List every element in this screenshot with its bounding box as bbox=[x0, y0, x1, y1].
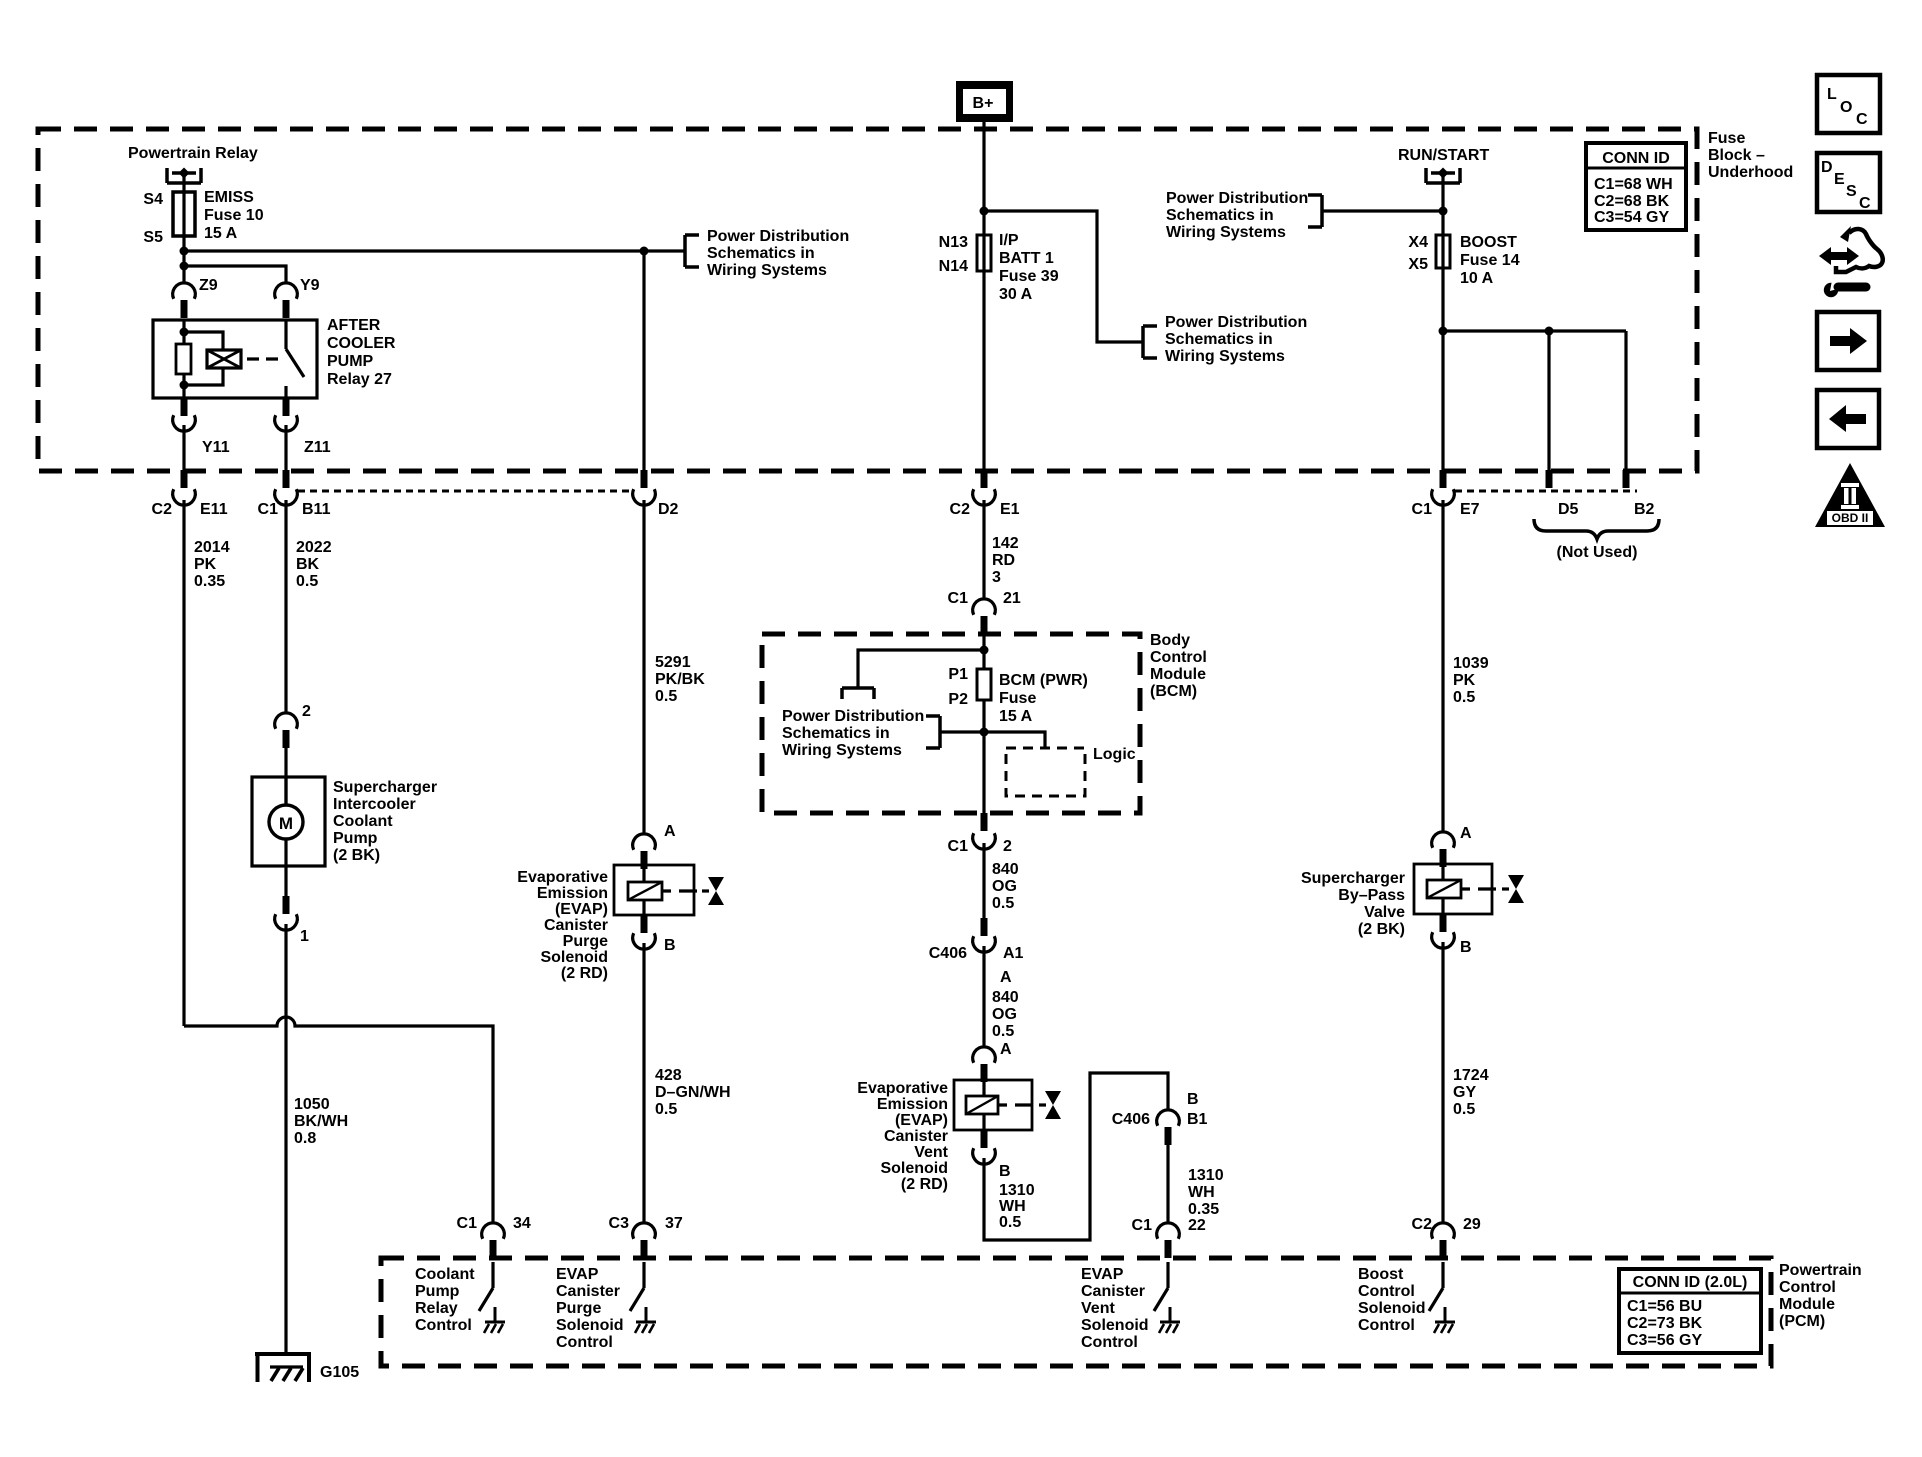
svg-text:Control: Control bbox=[556, 1334, 613, 1351]
svg-text:1724: 1724 bbox=[1453, 1067, 1489, 1084]
wire Z11 to B11 bbox=[284, 425, 287, 470]
switch EVAP canister purge solenoid control bbox=[630, 1262, 656, 1333]
connector pin 1 pump bbox=[284, 866, 287, 896]
svg-text:OBD II: OBD II bbox=[1832, 511, 1869, 525]
svg-text:Powertrain Relay: Powertrain Relay bbox=[128, 145, 258, 162]
dotted connector line B11 to D2 bbox=[298, 490, 633, 493]
svg-text:N14: N14 bbox=[939, 258, 968, 275]
wire 1310 WH to C1 22 bbox=[1166, 1145, 1169, 1223]
svg-text:2: 2 bbox=[302, 703, 311, 720]
svg-text:Canister: Canister bbox=[556, 1283, 620, 1300]
svg-text:Schematics in: Schematics in bbox=[707, 245, 815, 262]
relay linkage dashes bbox=[247, 357, 278, 360]
node D5 B2 branch junction bbox=[1439, 327, 1448, 336]
relay coil X-box bbox=[180, 328, 189, 337]
svg-text:0.8: 0.8 bbox=[294, 1130, 316, 1147]
svg-text:Fuse 39: Fuse 39 bbox=[999, 268, 1059, 285]
wire D2 down to purge solenoid bbox=[642, 251, 645, 834]
svg-text:C3: C3 bbox=[609, 1215, 630, 1232]
wire branch to power distribution right bbox=[984, 211, 1143, 342]
svg-text:D–GN/WH: D–GN/WH bbox=[655, 1084, 731, 1101]
svg-text:428: 428 bbox=[655, 1067, 682, 1084]
svg-text:(2 BK): (2 BK) bbox=[333, 847, 380, 864]
RUN/START feed symbol bbox=[1426, 168, 1460, 184]
wire feed to fuse 14 bbox=[1441, 173, 1444, 235]
svg-text:5291: 5291 bbox=[655, 654, 691, 671]
wire 840 OG to C406 bbox=[982, 843, 985, 918]
svg-text:O: O bbox=[1840, 99, 1852, 116]
connector B2 pin bbox=[1623, 470, 1630, 488]
svg-text:Solenoid: Solenoid bbox=[1081, 1317, 1149, 1334]
svg-text:Power Distribution: Power Distribution bbox=[707, 228, 849, 245]
connector B bypass valve bbox=[1440, 914, 1447, 932]
svg-text:Boost: Boost bbox=[1358, 1266, 1404, 1283]
svg-text:PUMP: PUMP bbox=[327, 353, 374, 370]
fuse 10 EMISS S4-S5 bbox=[182, 192, 185, 236]
svg-text:Pump: Pump bbox=[333, 830, 378, 847]
svg-text:Control: Control bbox=[415, 1317, 472, 1334]
svg-text:B: B bbox=[999, 1163, 1011, 1180]
wire 428 to C3 37 bbox=[642, 943, 645, 1223]
svg-text:1310: 1310 bbox=[999, 1182, 1035, 1199]
svg-text:Control: Control bbox=[1358, 1283, 1415, 1300]
svg-text:2: 2 bbox=[1003, 838, 1012, 855]
svg-text:BK: BK bbox=[296, 556, 320, 573]
OBD II icon bbox=[1815, 463, 1885, 527]
powertrain relay feed symbol bbox=[167, 168, 201, 184]
wire B+ down to fuse 39 bbox=[982, 122, 985, 235]
svg-text:BCM (PWR): BCM (PWR) bbox=[999, 672, 1088, 689]
svg-text:34: 34 bbox=[513, 1215, 531, 1232]
svg-text:Module: Module bbox=[1150, 666, 1206, 683]
svg-text:(2 BK): (2 BK) bbox=[1358, 921, 1405, 938]
svg-text:(2 RD): (2 RD) bbox=[561, 965, 608, 982]
svg-text:3: 3 bbox=[992, 569, 1001, 586]
wire 142 RD to BCM bbox=[982, 500, 985, 599]
svg-text:E11: E11 bbox=[200, 501, 228, 518]
node S5 junction bbox=[180, 247, 189, 256]
svg-text:C2=73 BK: C2=73 BK bbox=[1627, 1315, 1703, 1332]
svg-text:G105: G105 bbox=[320, 1364, 359, 1381]
DESC icon bbox=[1817, 153, 1880, 212]
svg-text:C1=56 BU: C1=56 BU bbox=[1627, 1298, 1702, 1315]
wire feed to fuse S4 bbox=[182, 173, 185, 192]
svg-text:(Not Used): (Not Used) bbox=[1557, 544, 1638, 561]
svg-text:0.5: 0.5 bbox=[1453, 1101, 1475, 1118]
svg-text:D5: D5 bbox=[1558, 501, 1579, 518]
wire Y11 to E11 bbox=[182, 425, 185, 470]
svg-text:By–Pass: By–Pass bbox=[1338, 887, 1405, 904]
svg-text:B+: B+ bbox=[973, 95, 994, 112]
svg-text:C1: C1 bbox=[1412, 501, 1433, 518]
relay switch bbox=[284, 320, 287, 349]
supercharger by-pass valve solenoid bbox=[1414, 862, 1524, 914]
svg-text:Module: Module bbox=[1779, 1296, 1835, 1313]
svg-text:B1: B1 bbox=[1187, 1111, 1208, 1128]
bracket power distribution (left) bbox=[685, 235, 699, 267]
fuse BCM (PWR) P1-P2 bbox=[977, 669, 991, 700]
svg-text:B: B bbox=[664, 937, 676, 954]
fuse 39 I/P BATT 1 N13-N14 bbox=[982, 235, 985, 271]
svg-text:(EVAP): (EVAP) bbox=[895, 1112, 948, 1129]
wire 840 OG to vent solenoid bbox=[982, 946, 985, 1048]
svg-text:A: A bbox=[664, 823, 676, 840]
connector C406 A1 bbox=[981, 918, 988, 936]
svg-text:Schematics in: Schematics in bbox=[782, 725, 890, 742]
label Power Distribution Schematics in Wiring Systems (fuse block) bbox=[707, 228, 849, 279]
svg-text:(PCM): (PCM) bbox=[1779, 1313, 1825, 1330]
wire S5 down bbox=[182, 236, 185, 283]
bracket power distribution (top right) bbox=[1308, 195, 1322, 227]
svg-text:C406: C406 bbox=[929, 945, 967, 962]
EVAP canister vent solenoid bbox=[954, 1078, 1061, 1130]
svg-text:RD: RD bbox=[992, 552, 1015, 569]
wire to power distribution bracket (top right) bbox=[1322, 209, 1443, 212]
svg-text:Schematics in: Schematics in bbox=[1165, 331, 1273, 348]
svg-text:Control: Control bbox=[1150, 649, 1207, 666]
wire P2 down through BCM bbox=[982, 700, 985, 813]
fuse 14 BOOST X4-X5 bbox=[1441, 235, 1444, 268]
svg-text:Fuse: Fuse bbox=[999, 690, 1036, 707]
svg-text:Evaporative: Evaporative bbox=[517, 869, 608, 886]
EVAP canister purge solenoid bbox=[614, 864, 724, 915]
PCM dashed box bbox=[381, 1258, 1771, 1366]
label Boost Control Solenoid Control bbox=[1358, 1266, 1426, 1334]
svg-text:A: A bbox=[1460, 825, 1472, 842]
relay 27 AFTER COOLER PUMP box bbox=[153, 320, 317, 398]
node Y9 branch junction bbox=[180, 262, 189, 271]
svg-text:A: A bbox=[1000, 1041, 1012, 1058]
connector B purge solenoid bbox=[641, 915, 648, 933]
svg-text:X4: X4 bbox=[1408, 234, 1428, 251]
BCM dashed box bbox=[762, 634, 1140, 813]
svg-text:C2: C2 bbox=[950, 501, 971, 518]
svg-text:37: 37 bbox=[665, 1215, 683, 1232]
wire 2014 PK E11 down bbox=[182, 500, 185, 1026]
svg-text:OG: OG bbox=[992, 1006, 1017, 1023]
svg-text:Z11: Z11 bbox=[304, 439, 331, 456]
svg-text:Evaporative: Evaporative bbox=[857, 1080, 948, 1097]
svg-text:1039: 1039 bbox=[1453, 655, 1489, 672]
wire branch to BCM power distribution bracket bbox=[858, 650, 984, 688]
relay coil resistor bbox=[182, 320, 185, 398]
svg-text:E1: E1 bbox=[1000, 501, 1020, 518]
node BCM feed junction bbox=[980, 646, 989, 655]
label 840 OG 0.5 bbox=[992, 861, 1019, 912]
svg-text:PK: PK bbox=[1453, 672, 1476, 689]
svg-text:RUN/START: RUN/START bbox=[1398, 147, 1489, 164]
wire into BCM bbox=[982, 634, 985, 669]
svg-text:0.35: 0.35 bbox=[194, 573, 225, 590]
label A 840 OG 0.5 A bbox=[992, 969, 1019, 1058]
svg-text:(BCM): (BCM) bbox=[1150, 683, 1197, 700]
svg-text:Control: Control bbox=[1081, 1334, 1138, 1351]
wire S5 junction to D2 branch bbox=[184, 249, 644, 252]
svg-text:Coolant: Coolant bbox=[333, 813, 393, 830]
svg-text:C1: C1 bbox=[457, 1215, 478, 1232]
connector C2 E11 bbox=[181, 470, 188, 488]
svg-text:A1: A1 bbox=[1003, 945, 1024, 962]
svg-text:0.5: 0.5 bbox=[992, 895, 1014, 912]
svg-text:Solenoid: Solenoid bbox=[556, 1317, 624, 1334]
node B+ branch junction bbox=[980, 207, 989, 216]
svg-text:Emission: Emission bbox=[877, 1096, 948, 1113]
svg-text:EVAP: EVAP bbox=[1081, 1266, 1124, 1283]
label Supercharger Intercooler Coolant Pump (2 BK) bbox=[333, 779, 437, 864]
svg-text:Supercharger: Supercharger bbox=[333, 779, 437, 796]
svg-text:(2 RD): (2 RD) bbox=[901, 1176, 948, 1193]
service/wrench icon bbox=[1819, 226, 1883, 297]
connector C2 E1 bbox=[981, 470, 988, 488]
svg-text:Y11: Y11 bbox=[202, 439, 230, 456]
svg-text:15 A: 15 A bbox=[999, 708, 1033, 725]
svg-text:29: 29 bbox=[1463, 1216, 1481, 1233]
node logic junction bbox=[980, 728, 989, 737]
dotted connector line E7 to B2 bbox=[1455, 490, 1637, 493]
svg-text:(EVAP): (EVAP) bbox=[555, 901, 608, 918]
svg-text:D: D bbox=[1821, 159, 1833, 176]
svg-text:1: 1 bbox=[300, 928, 309, 945]
svg-text:1310: 1310 bbox=[1188, 1167, 1224, 1184]
connector Z9 bbox=[173, 283, 196, 299]
svg-text:S5: S5 bbox=[143, 229, 163, 246]
svg-text:I/P: I/P bbox=[999, 232, 1019, 249]
svg-text:0.5: 0.5 bbox=[999, 1214, 1021, 1231]
svg-text:N13: N13 bbox=[939, 234, 968, 251]
wire fuse 39 to C2 E1 bbox=[982, 271, 985, 470]
wire to power distribution bracket (BCM left) bbox=[940, 730, 984, 733]
svg-text:0.5: 0.5 bbox=[655, 1101, 677, 1118]
svg-text:22: 22 bbox=[1188, 1217, 1206, 1234]
svg-text:P2: P2 bbox=[948, 691, 968, 708]
svg-text:Fuse 10: Fuse 10 bbox=[204, 207, 264, 224]
label Body Control Module (BCM) bbox=[1150, 632, 1207, 700]
connector C1 B11 bbox=[283, 470, 290, 488]
svg-text:Body: Body bbox=[1150, 632, 1190, 649]
svg-text:Vent: Vent bbox=[914, 1144, 948, 1161]
motor M supercharger intercooler coolant pump bbox=[252, 777, 325, 866]
svg-text:Relay 27: Relay 27 bbox=[327, 371, 392, 388]
svg-text:B: B bbox=[1187, 1091, 1199, 1108]
svg-text:Fuse: Fuse bbox=[1708, 130, 1745, 147]
svg-text:B11: B11 bbox=[302, 501, 331, 518]
svg-text:Wiring Systems: Wiring Systems bbox=[782, 742, 902, 759]
connector D2 bbox=[641, 470, 648, 488]
svg-text:Fuse 14: Fuse 14 bbox=[1460, 252, 1520, 269]
LOC icon bbox=[1817, 75, 1880, 133]
svg-text:21: 21 bbox=[1003, 590, 1021, 607]
svg-text:C: C bbox=[1859, 195, 1871, 212]
svg-text:142: 142 bbox=[992, 535, 1019, 552]
svg-text:Schematics in: Schematics in bbox=[1166, 207, 1274, 224]
svg-text:E: E bbox=[1834, 171, 1845, 188]
svg-text:Wiring Systems: Wiring Systems bbox=[1165, 348, 1285, 365]
svg-text:OG: OG bbox=[992, 878, 1017, 895]
node RUN/START junction bbox=[1439, 207, 1448, 216]
svg-text:C: C bbox=[1856, 111, 1868, 128]
label Coolant Pump Relay Control bbox=[415, 1266, 475, 1334]
svg-text:C1: C1 bbox=[258, 501, 279, 518]
svg-text:840: 840 bbox=[992, 861, 1019, 878]
svg-text:S: S bbox=[1846, 183, 1857, 200]
svg-text:AFTER: AFTER bbox=[327, 317, 381, 334]
svg-text:15 A: 15 A bbox=[204, 225, 238, 242]
svg-text:Power Distribution: Power Distribution bbox=[782, 708, 924, 725]
svg-text:Intercooler: Intercooler bbox=[333, 796, 416, 813]
svg-text:EMISS: EMISS bbox=[204, 189, 254, 206]
wire vent solenoid B loop to C406 B1 bbox=[984, 1073, 1168, 1240]
svg-text:0.5: 0.5 bbox=[296, 573, 318, 590]
B+ power symbol bbox=[956, 81, 1013, 122]
label 2014 PK 0.35 bbox=[194, 539, 230, 590]
svg-text:0.5: 0.5 bbox=[655, 688, 677, 705]
svg-text:L: L bbox=[1827, 86, 1837, 103]
wire X5 to C1 E7 bbox=[1441, 268, 1444, 470]
label 2022 BK 0.5 bbox=[296, 539, 332, 590]
svg-text:C1: C1 bbox=[948, 590, 969, 607]
bracket power distribution (mid right) bbox=[1143, 326, 1157, 358]
connector C1 E7 bbox=[1440, 470, 1447, 488]
label 1724 GY 0.5 bbox=[1453, 1067, 1489, 1118]
connector A vent solenoid bbox=[973, 1047, 996, 1063]
connector B vent solenoid bbox=[981, 1130, 988, 1148]
svg-text:Relay: Relay bbox=[415, 1300, 458, 1317]
connector D5 pin bbox=[1546, 470, 1553, 488]
svg-text:0.5: 0.5 bbox=[1453, 689, 1475, 706]
svg-text:Wiring Systems: Wiring Systems bbox=[1166, 224, 1286, 241]
CONN ID (2.0L) table (PCM) bbox=[1619, 1269, 1761, 1353]
svg-text:0.5: 0.5 bbox=[992, 1023, 1014, 1040]
svg-text:Y9: Y9 bbox=[300, 277, 320, 294]
label EVAP Canister Vent Solenoid Control bbox=[1081, 1266, 1149, 1351]
label Power Distribution Schematics in Wiring Systems (mid right) bbox=[1165, 314, 1307, 365]
label EVAP Canister Purge Solenoid Control bbox=[556, 1266, 624, 1351]
svg-text:10 A: 10 A bbox=[1460, 270, 1494, 287]
logic dashed box bbox=[1006, 748, 1085, 796]
left arrow icon bbox=[1817, 390, 1879, 448]
switch boost control solenoid control bbox=[1429, 1262, 1455, 1333]
svg-text:Purge: Purge bbox=[556, 1300, 601, 1317]
svg-text:Solenoid: Solenoid bbox=[540, 949, 608, 966]
svg-text:GY: GY bbox=[1453, 1084, 1476, 1101]
wire D5 bbox=[1547, 331, 1550, 470]
svg-text:30 A: 30 A bbox=[999, 286, 1033, 303]
svg-text:Canister: Canister bbox=[1081, 1283, 1145, 1300]
label 1310 WH 0.35 bbox=[1188, 1167, 1224, 1218]
svg-text:WH: WH bbox=[999, 1198, 1026, 1215]
svg-text:Powertrain: Powertrain bbox=[1779, 1262, 1862, 1279]
wire B2 bbox=[1624, 331, 1627, 470]
svg-text:S4: S4 bbox=[143, 191, 163, 208]
svg-text:Power Distribution: Power Distribution bbox=[1166, 190, 1308, 207]
label Fuse Block - Underhood bbox=[1708, 130, 1793, 181]
label 5291 PK/BK 0.5 bbox=[655, 654, 705, 705]
label 142 RD 3 bbox=[992, 535, 1019, 586]
svg-text:D2: D2 bbox=[658, 501, 679, 518]
svg-text:840: 840 bbox=[992, 989, 1019, 1006]
svg-text:Solenoid: Solenoid bbox=[880, 1160, 948, 1177]
svg-text:Supercharger: Supercharger bbox=[1301, 870, 1405, 887]
fuse block underhood dashed box bbox=[38, 129, 1697, 471]
svg-text:1050: 1050 bbox=[294, 1096, 330, 1113]
ground G105 bbox=[255, 1354, 311, 1382]
svg-text:Pump: Pump bbox=[415, 1283, 460, 1300]
connector C1 2 BCM bottom bbox=[981, 813, 988, 831]
svg-text:Canister: Canister bbox=[544, 917, 608, 934]
wire branch to Y9 bbox=[184, 266, 286, 283]
right arrow icon bbox=[1817, 312, 1879, 370]
svg-text:PK/BK: PK/BK bbox=[655, 671, 705, 688]
svg-text:Control: Control bbox=[1358, 1317, 1415, 1334]
svg-text:Purge: Purge bbox=[563, 933, 608, 950]
svg-text:C3=54 GY: C3=54 GY bbox=[1594, 209, 1669, 226]
bracket power distribution (BCM left) bbox=[926, 716, 940, 748]
svg-text:C1: C1 bbox=[948, 838, 969, 855]
svg-text:Coolant: Coolant bbox=[415, 1266, 475, 1283]
svg-text:PK: PK bbox=[194, 556, 217, 573]
connector Y9 bbox=[275, 283, 298, 299]
CONN ID table (fuse block) bbox=[1586, 143, 1686, 230]
svg-text:B: B bbox=[1460, 939, 1472, 956]
label 1310 WH 0.5 bbox=[999, 1182, 1035, 1231]
svg-text:E7: E7 bbox=[1460, 501, 1480, 518]
wire pump to G105 ground bbox=[284, 924, 287, 1352]
svg-text:C1=68 WH: C1=68 WH bbox=[1594, 176, 1673, 193]
svg-text:Logic: Logic bbox=[1093, 746, 1136, 763]
label 428 D-GN/WH 0.5 bbox=[655, 1067, 731, 1118]
svg-text:Solenoid: Solenoid bbox=[1358, 1300, 1426, 1317]
wire to pump bbox=[284, 748, 287, 805]
wire stub to power distribution bracket bbox=[644, 249, 685, 252]
wire E11 branch to coolant pump relay control with hop bbox=[184, 1017, 493, 1223]
svg-text:C1: C1 bbox=[1132, 1217, 1153, 1234]
node D2 branch junction bbox=[640, 247, 649, 256]
wire 1724 GY to C2 29 bbox=[1441, 942, 1444, 1223]
svg-text:Z9: Z9 bbox=[199, 277, 218, 294]
bracket power distribution (BCM top) bbox=[842, 688, 874, 699]
svg-text:CONN ID (2.0L): CONN ID (2.0L) bbox=[1633, 1274, 1748, 1291]
svg-text:BATT 1: BATT 1 bbox=[999, 250, 1054, 267]
connector Z11 bbox=[283, 398, 290, 416]
switch coolant pump relay control bbox=[479, 1262, 505, 1333]
label Power Distribution Schematics in Wiring Systems (BCM) bbox=[782, 708, 924, 759]
svg-text:Power Distribution: Power Distribution bbox=[1165, 314, 1307, 331]
svg-text:Vent: Vent bbox=[1081, 1300, 1115, 1317]
svg-text:Canister: Canister bbox=[884, 1128, 948, 1145]
svg-text:A: A bbox=[1000, 969, 1012, 986]
svg-text:C2=68 BK: C2=68 BK bbox=[1594, 193, 1670, 210]
svg-text:Block –: Block – bbox=[1708, 147, 1765, 164]
connector Y11 bbox=[181, 398, 188, 416]
svg-text:X5: X5 bbox=[1408, 256, 1428, 273]
brace not used bbox=[1534, 519, 1659, 539]
svg-text:C406: C406 bbox=[1112, 1111, 1150, 1128]
svg-text:Wiring Systems: Wiring Systems bbox=[707, 262, 827, 279]
wire 1039 PK to bypass valve bbox=[1441, 500, 1444, 832]
svg-text:M: M bbox=[279, 814, 293, 833]
svg-text:CONN ID: CONN ID bbox=[1602, 150, 1670, 167]
svg-text:COOLER: COOLER bbox=[327, 335, 396, 352]
label 1050 BK/WH 0.8 bbox=[294, 1096, 348, 1147]
wire branch to D5 and B2 bbox=[1443, 329, 1626, 332]
label Powertrain Control Module (PCM) bbox=[1779, 1262, 1862, 1330]
svg-text:Emission: Emission bbox=[537, 885, 608, 902]
svg-text:2014: 2014 bbox=[194, 539, 230, 556]
svg-text:P1: P1 bbox=[948, 666, 968, 683]
label Evaporative Emission (EVAP) Canister Vent Solenoid (2 RD) bbox=[857, 1080, 948, 1193]
label 1039 PK 0.5 bbox=[1453, 655, 1489, 706]
svg-text:Valve: Valve bbox=[1364, 904, 1405, 921]
